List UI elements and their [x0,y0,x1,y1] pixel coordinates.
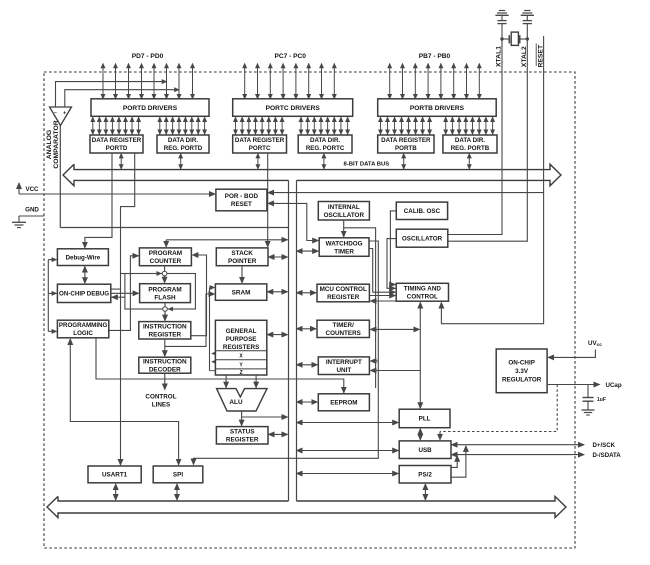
wire PS/2 to D-/SDATA [451,456,457,468]
wires port B pin lines (8 bidirectional) [390,64,480,99]
wire vertical bus channel right wall [296,180,298,501]
block PLL [399,409,450,428]
block PROGRAM FLASH [140,284,191,303]
svg-text:REGISTER: REGISTER [327,294,360,301]
wire analog comparator output down to rail [59,125,61,227]
block PORTC DRIVERS [233,99,353,117]
wire instruction register tap to SRAM [165,294,215,346]
svg-text:EEPROM: EEPROM [330,400,357,407]
svg-text:D+/SCK: D+/SCK [593,442,616,449]
block program flash enclosure [125,274,195,310]
svg-text:−: − [54,111,57,117]
svg-text:ANALOG: ANALOG [46,130,53,159]
bus bottom horizontal data bus [47,496,566,517]
svg-text:3.3V: 3.3V [515,368,529,375]
wire regulator 3.3V to USB (dashed) [440,385,557,432]
svg-text:TIMING AND: TIMING AND [404,286,442,293]
wire MCU control register to timing and control [369,295,395,297]
wire calibrated oscillator to timing and control [390,211,396,285]
wire MCU control register to data bus [297,292,317,294]
svg-text:PD7 - PD0: PD7 - PD0 [132,53,164,60]
svg-text:PORTD DRIVERS: PORTD DRIVERS [123,105,178,112]
wires PORTC drivers to data register (8 arrows) [236,117,283,134]
svg-text:MCU CONTROL: MCU CONTROL [320,286,367,293]
wires PORTB drivers to data direction register (8 arrows) [446,117,493,134]
wire status register to data bus [269,433,288,435]
block STACK POINTER [216,248,268,266]
svg-text:UCap: UCap [606,382,622,389]
label ANALOG COMPARATOR [46,120,60,168]
wire VCC rail to POR-BOD [19,193,215,195]
svg-text:Debug-Wire: Debug-Wire [66,254,101,261]
block PORTB DRIVERS [378,99,497,117]
wire PLL to USB [419,429,421,440]
wire general purpose registers to data bus [267,334,287,336]
svg-text:REGISTERS: REGISTERS [223,344,259,351]
wire instruction decoder to control lines [164,373,166,389]
wire SPI feeder from programming logic [70,339,178,465]
svg-text:CONTROL: CONTROL [145,394,176,401]
svg-text:TIMER: TIMER [334,248,354,255]
wire USART1 to bottom data bus [115,484,117,500]
svg-text:OSCILLATOR: OSCILLATOR [324,212,365,219]
block POR - BOD RESET [216,189,267,211]
wire watchdog timer to data bus [297,250,319,252]
svg-text:REG. PORTB: REG. PORTB [451,145,490,152]
block PORTD DRIVERS [91,99,209,117]
alu ALU [217,389,267,411]
wire on-chip debug tap to vertical [111,288,121,290]
wire DATA REGISTER PORTC to data bus [257,154,259,169]
block STATUS REGISTER [216,427,268,444]
wire ALU to status register and data bus [242,411,288,426]
svg-text:RESET: RESET [538,44,545,68]
block INSTRUCTION DECODER [139,357,191,373]
svg-text:REGISTER: REGISTER [226,437,259,444]
svg-text:INTERNAL: INTERNAL [328,204,360,211]
block PROGRAM COUNTER [139,248,191,266]
wire PS/2 to data bus [297,473,399,475]
svg-text:PC7 - PC0: PC7 - PC0 [274,53,306,60]
wire PS/2 to D+/SCK [451,446,466,477]
block TIMER/COUNTERS [317,320,369,337]
block DATA REGISTER PORTB [378,135,434,153]
svg-text:+: + [63,111,66,117]
wire programming logic to program counter [109,256,138,331]
wire PS/2 to bottom data bus [424,484,426,500]
wire DATA DIR. REG. PORTC to data bus [323,154,325,169]
ground GND pin [12,207,44,228]
block INTERNAL OSCILLATOR [318,202,369,221]
svg-text:PROGRAM: PROGRAM [148,286,181,293]
wire UVcc to regulator [548,350,595,358]
crystal between XTAL1 and XTAL2 [500,32,529,45]
capacitor XTAL1 load capacitor with ground [495,11,508,24]
block PROGRAMMING LOGIC [57,320,108,338]
block DATA DIR. REG. PORTD [157,135,209,153]
svg-text:REGISTER: REGISTER [148,332,181,339]
chip boundary (dashed border) [44,72,575,548]
svg-text:PS/2: PS/2 [418,472,432,479]
svg-text:CONTROL: CONTROL [407,294,438,301]
svg-text:PORTC: PORTC [249,145,271,152]
wires PORTB drivers to data register (8 arrows) [381,117,430,134]
block ON-CHIP DEBUG [57,284,110,302]
svg-text:REGULATOR: REGULATOR [502,377,542,384]
wire Debug-Wire feeder from port D register [85,154,112,248]
svg-text:DATA REGISTER: DATA REGISTER [92,137,142,144]
block DATA DIR. REG. PORTB [443,135,497,153]
svg-text:CALIB. OSC: CALIB. OSC [404,208,441,215]
wire branch to program flash enclosure [121,273,125,275]
block DATA REGISTER PORTD [90,135,143,153]
wire port C register to stack pointer [267,154,269,247]
wire USB D-/SDATA line [452,454,585,456]
svg-text:PURPOSE: PURPOSE [226,336,257,343]
block INSTRUCTION REGISTER [139,322,191,339]
svg-text:D-/SDATA: D-/SDATA [593,452,622,459]
svg-text:VCC: VCC [25,186,39,193]
svg-text:INSTRUCTION: INSTRUCTION [143,358,187,365]
block TIMING AND CONTROL [396,283,448,301]
block ON-CHIP 3.3V REGULATOR [496,349,547,393]
svg-text:POR - BOD: POR - BOD [225,193,259,200]
svg-text:PLL: PLL [419,416,431,423]
wire general purpose registers to ALU (left) [225,376,227,388]
wire stack pointer to SRAM [241,266,243,283]
svg-text:PORTB DRIVERS: PORTB DRIVERS [410,105,465,112]
svg-text:ON-CHIP DEBUG: ON-CHIP DEBUG [59,291,109,298]
wire SRAM to data bus [267,291,287,293]
svg-text:XTAL1: XTAL1 [496,46,503,67]
wire USB D+/SCK line [452,444,585,446]
wire RESET line [441,36,543,324]
wires PORTC drivers to data direction register (8 arrows) [301,117,348,134]
block MCU CONTROL REGISTER [317,284,369,302]
wire instruction register to program counter [191,255,206,336]
svg-text:GENERAL: GENERAL [226,328,257,335]
block WATCHDOG TIMER [319,238,369,256]
wire on-chip debug to program flash [112,292,139,294]
svg-text:COMPARATOR: COMPARATOR [53,120,60,168]
svg-text:INSTRUCTION: INSTRUCTION [143,324,187,331]
svg-text:COUNTER: COUNTER [150,258,182,265]
svg-text:INTERRUPT: INTERRUPT [326,359,362,366]
wire instruction register to instruction decoder [164,339,166,356]
capacitor UCap 1uF with ground [582,385,606,416]
label RESET (active low) [536,44,544,68]
wire comparator positive input from PD line [65,90,179,107]
block GENERAL PURPOSE REGISTERS with X Y Z [215,320,266,376]
svg-text:RESET: RESET [231,201,252,208]
svg-text:DATA REGISTER: DATA REGISTER [381,137,431,144]
wire USB to data bus [297,450,399,452]
wire XTAL2 line [448,24,527,242]
svg-text:USART1: USART1 [102,472,128,479]
wire timing and control to MCU control register [370,300,396,302]
wire general purpose registers to ALU (right) [255,376,257,388]
wire watchdog timer to timing and control [369,249,395,293]
wire comparator negative input from PD line [56,82,167,107]
wire DATA DIR. REG. PORTD to data bus [180,154,182,169]
block INTERRUPT UNIT [318,357,369,375]
svg-text:REG. PORTD: REG. PORTD [164,145,203,152]
wire DATA REGISTER PORTB to data bus [403,154,405,169]
block SPI [153,466,203,483]
block EEPROM [318,394,369,411]
wire DATA DIR. REG. PORTB to data bus [468,154,470,169]
block OSCILLATOR [396,229,448,247]
block PS/2 [399,466,451,484]
wire timer/counters to data bus [297,328,317,330]
svg-text:DECODER: DECODER [149,366,181,373]
block DATA DIR. REG. PORTC [298,135,352,153]
wire internal oscillator branch to timing and control [344,228,376,388]
wire oscillator to timing and control [387,239,396,289]
wire internal oscillator to watchdog timer [343,220,345,237]
wires port C pin lines (8 bidirectional) [245,64,335,99]
block SRAM [215,284,266,300]
wire regulator output to UCap [547,384,599,386]
wire horizontal rail y=228 to bus channel [60,227,288,229]
wire interrupt unit to data bus [297,364,318,366]
wire program counter to program flash with junction [155,266,167,283]
wire program flash to instruction register with junction [163,303,175,321]
svg-text:FLASH: FLASH [154,294,176,301]
svg-text:SPI: SPI [173,472,183,479]
svg-text:USB: USB [418,447,432,454]
svg-text:COUNTERS: COUNTERS [326,330,361,337]
wires PORTD drivers to data direction register (8 arrows) [160,117,205,134]
svg-text:STATUS: STATUS [230,429,255,436]
svg-text:XTAL2: XTAL2 [521,46,528,67]
svg-text:PB7 - PB0: PB7 - PB0 [419,53,451,60]
svg-text:1uF: 1uF [597,397,606,403]
wires PORTD drivers to data register (8 arrows) [93,117,139,134]
svg-text:PORTC DRIVERS: PORTC DRIVERS [266,105,321,112]
svg-text:OSCILLATOR: OSCILLATOR [402,235,443,242]
wire watchdog timer to interrupt unit and SPI [194,241,379,465]
svg-text:PROGRAM: PROGRAM [149,250,182,257]
svg-text:DATA DIR.: DATA DIR. [310,137,340,144]
svg-text:PORTD: PORTD [106,145,128,152]
block CALIB. OSC [396,202,447,219]
svg-text:LINES: LINES [152,402,171,409]
wire X Y Z registers indirect addressing to SRAM [210,288,216,371]
wire program counter to data bus (top) [166,240,287,247]
capacitor XTAL2 load capacitor with ground [521,11,534,24]
power VCC pin [19,183,39,194]
svg-text:Z: Z [240,370,243,376]
wire DATA REGISTER PORTD to data bus [120,154,122,169]
op-amp analog comparator [50,107,72,126]
wires port D pin lines (8 bidirectional) [103,64,193,99]
wire stack pointer to data bus [269,256,288,258]
wire timing and control to PLL vertical [370,303,420,409]
block USB [399,441,451,459]
block USART1 [88,466,141,483]
wire XTAL1 line [448,24,502,235]
wire Debug-Wire to ON-CHIP DEBUG [84,267,86,284]
svg-text:DATA DIR.: DATA DIR. [455,137,485,144]
wire program flash enclosure to on-chip debug [112,296,125,298]
label CONTROL LINES [145,394,176,409]
svg-text:GND: GND [25,207,39,214]
wire debug feeder vertical with arrows into debug blocks [48,260,56,332]
svg-text:TIMER/: TIMER/ [333,322,355,329]
svg-text:DATA DIR.: DATA DIR. [168,137,198,144]
wire POR-BOD to watchdog timer [268,203,318,240]
svg-text:8-BIT DATA BUS: 8-BIT DATA BUS [344,161,390,167]
svg-text:SRAM: SRAM [232,289,251,296]
wire timer/counters to timing vertical [370,328,419,330]
svg-text:WATCHDOG: WATCHDOG [326,240,363,247]
svg-text:PROGRAMMING: PROGRAMMING [59,322,108,329]
wire port D register down to on-chip debug / USART1 vertical [121,154,135,465]
wire vertical bus channel left wall [288,180,290,501]
svg-text:POINTER: POINTER [228,258,257,265]
wire EEPROM to data bus [297,401,318,403]
wire programming logic to EEPROM [96,339,344,393]
bus 8-bit data bus (top horizontal bus) [63,164,561,186]
svg-text:STACK: STACK [231,250,253,257]
block Debug-Wire [57,249,108,266]
wire SPI to bottom data bus [176,484,178,500]
svg-text:PORTB: PORTB [395,145,417,152]
svg-text:DATA REGISTER: DATA REGISTER [235,137,285,144]
wire PLL to data bus [297,422,399,424]
block DATA REGISTER PORTC [233,135,287,153]
svg-text:ALU: ALU [229,399,243,406]
svg-text:REG. PORTC: REG. PORTC [306,145,345,152]
wire RESET to POR-BOD [268,192,544,194]
svg-text:LOGIC: LOGIC [73,330,93,337]
svg-text:UNIT: UNIT [336,367,351,374]
svg-text:ON-CHIP: ON-CHIP [508,360,535,367]
